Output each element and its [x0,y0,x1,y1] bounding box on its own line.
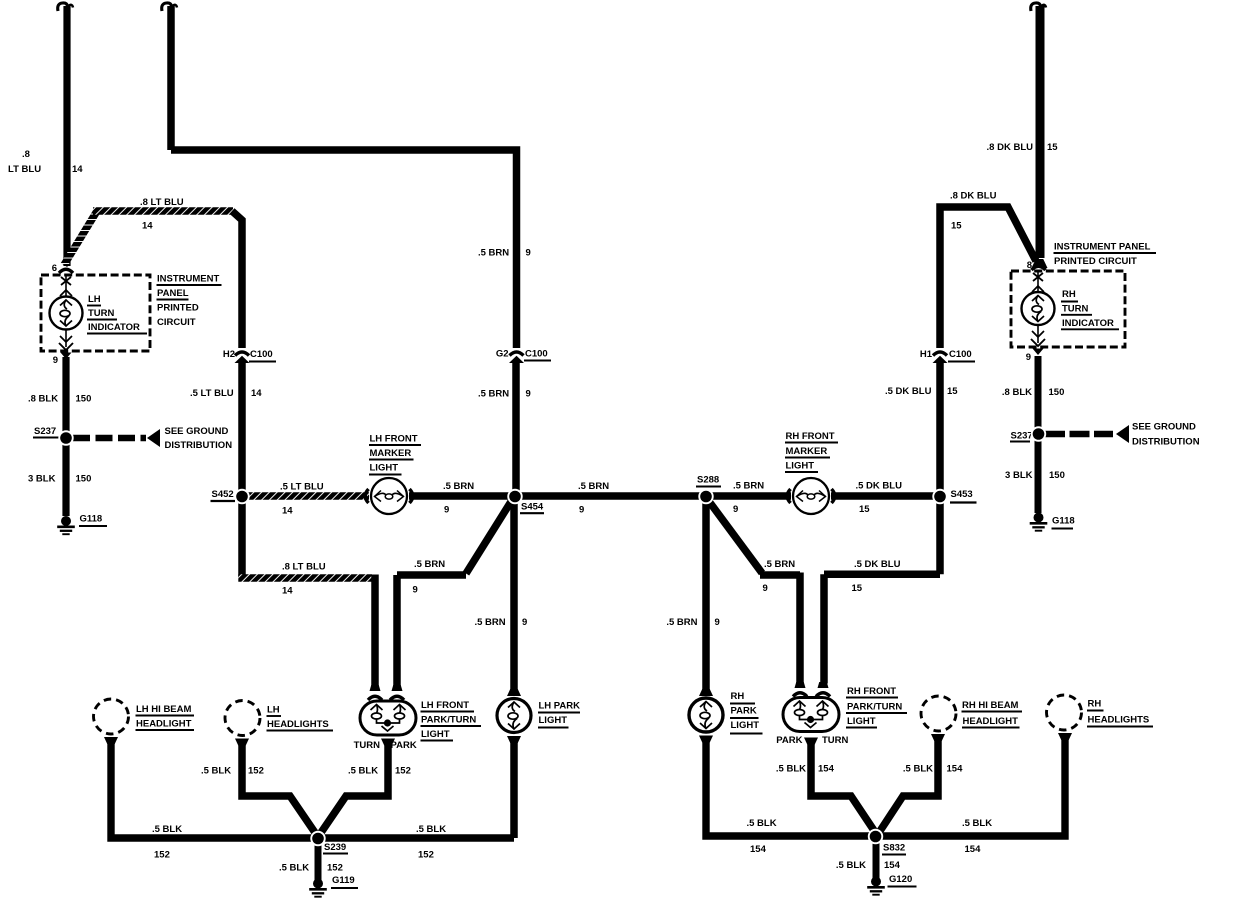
svg-text:150: 150 [76,394,92,405]
svg-text:15: 15 [951,221,962,232]
svg-text:S239: S239 [324,842,346,853]
svg-text:INSTRUMENT: INSTRUMENT [157,274,219,285]
svg-text:PARK/TURN: PARK/TURN [421,715,476,726]
svg-text:15: 15 [947,386,958,397]
svg-text:RH: RH [1088,699,1102,710]
svg-text:.5 BLK: .5 BLK [836,860,866,871]
svg-text:.8 BLK: .8 BLK [28,394,58,405]
svg-text:RH: RH [1062,289,1076,300]
svg-text:SEE GROUND: SEE GROUND [1132,422,1196,433]
svg-text:LT BLU: LT BLU [8,164,41,175]
svg-text:LH HI BEAM: LH HI BEAM [136,704,192,715]
svg-text:LIGHT: LIGHT [847,716,876,727]
svg-text:TURN: TURN [88,308,115,319]
svg-text:INSTRUMENT PANEL: INSTRUMENT PANEL [1054,242,1151,253]
svg-text:HEADLIGHTS: HEADLIGHTS [267,719,329,730]
svg-text:152: 152 [154,850,170,861]
svg-text:.8 DK BLU: .8 DK BLU [987,142,1034,153]
svg-text:S288: S288 [697,475,719,486]
svg-text:.5 BLK: .5 BLK [747,818,777,829]
svg-text:.5 BLK: .5 BLK [903,764,933,775]
svg-text:G118: G118 [1052,516,1075,527]
svg-text:CIRCUIT: CIRCUIT [157,317,196,328]
svg-text:.5 BLK: .5 BLK [279,863,309,874]
svg-text:C100: C100 [525,349,548,360]
svg-text:LH FRONT: LH FRONT [370,434,418,445]
svg-text:INDICATOR: INDICATOR [88,322,140,333]
svg-text:6: 6 [52,263,57,274]
svg-text:LIGHT: LIGHT [370,463,399,474]
svg-text:G120: G120 [889,874,912,885]
svg-text:.5 DK BLU: .5 DK BLU [885,386,932,397]
svg-text:15: 15 [1047,142,1058,153]
svg-text:S832: S832 [883,843,905,854]
svg-text:SEE GROUND: SEE GROUND [165,426,229,437]
svg-text:.8: .8 [22,149,30,160]
svg-text:9: 9 [526,389,531,400]
svg-text:.8 LT BLU: .8 LT BLU [140,197,184,208]
svg-text:.5 BRN: .5 BRN [733,481,764,492]
svg-text:LH: LH [88,294,101,305]
svg-text:RH HI BEAM: RH HI BEAM [962,700,1019,711]
svg-text:150: 150 [1049,387,1065,398]
svg-text:.5 BRN: .5 BRN [443,481,474,492]
svg-text:RH FRONT: RH FRONT [847,686,896,697]
svg-text:.5 DK BLU: .5 DK BLU [854,559,901,570]
svg-text:9: 9 [715,617,720,628]
svg-text:.5 BLK: .5 BLK [348,766,378,777]
svg-text:MARKER: MARKER [370,448,412,459]
svg-text:S452: S452 [212,489,234,500]
svg-text:S454: S454 [521,502,544,513]
svg-text:C100: C100 [949,349,972,360]
svg-text:.5 LT BLU: .5 LT BLU [190,388,234,399]
svg-text:9: 9 [733,504,738,515]
svg-text:.5 BLK: .5 BLK [776,764,806,775]
svg-text:.5 BRN: .5 BRN [578,481,609,492]
svg-text:DISTRIBUTION: DISTRIBUTION [1132,437,1200,448]
svg-text:.5 BRN: .5 BRN [478,389,509,400]
svg-text:PARK/TURN: PARK/TURN [847,702,902,713]
svg-text:.5 LT BLU: .5 LT BLU [280,482,324,493]
svg-text:152: 152 [395,766,411,777]
svg-text:3 BLK: 3 BLK [28,474,56,485]
svg-text:.5 BLK: .5 BLK [201,766,231,777]
svg-text:9: 9 [53,355,58,366]
svg-text:154: 154 [947,764,964,775]
svg-text:G118: G118 [80,514,103,525]
svg-text:.5 BRN: .5 BRN [666,617,697,628]
svg-text:9: 9 [413,585,418,596]
svg-text:14: 14 [282,506,293,517]
svg-text:.5 BLK: .5 BLK [962,818,992,829]
svg-text:150: 150 [76,474,92,485]
svg-text:TURN: TURN [1062,304,1089,315]
svg-text:.8 BLK: .8 BLK [1002,387,1032,398]
svg-text:152: 152 [327,863,343,874]
svg-text:3 BLK: 3 BLK [1005,470,1033,481]
svg-text:C100: C100 [250,349,273,360]
svg-text:9: 9 [579,505,584,516]
svg-text:LH: LH [267,705,280,716]
svg-text:PRINTED: PRINTED [157,303,199,314]
svg-text:154: 154 [965,844,982,855]
svg-text:152: 152 [418,850,434,861]
svg-text:TURN: TURN [822,735,849,746]
svg-text:.5 BRN: .5 BRN [764,559,795,570]
svg-text:LH PARK: LH PARK [539,701,581,712]
svg-text:154: 154 [818,764,835,775]
svg-text:.5 BLK: .5 BLK [416,824,446,835]
svg-text:S237: S237 [34,426,56,437]
svg-text:9: 9 [526,248,531,259]
svg-text:9: 9 [444,505,449,516]
svg-text:.5 BLK: .5 BLK [152,824,182,835]
svg-text:H2: H2 [223,349,235,360]
svg-text:LIGHT: LIGHT [786,461,815,472]
svg-text:.5 DK BLU: .5 DK BLU [856,481,903,492]
svg-text:LIGHT: LIGHT [539,715,568,726]
svg-text:TURN: TURN [354,740,381,751]
svg-text:S453: S453 [951,489,973,500]
svg-text:DISTRIBUTION: DISTRIBUTION [165,440,233,451]
svg-text:.8 DK BLU: .8 DK BLU [950,191,997,202]
svg-text:.8 LT BLU: .8 LT BLU [282,562,326,573]
svg-text:152: 152 [248,766,264,777]
svg-text:PRINTED CIRCUIT: PRINTED CIRCUIT [1054,256,1137,267]
svg-text:G2: G2 [496,349,509,360]
svg-text:14: 14 [251,388,262,399]
svg-text:.5 BRN: .5 BRN [414,559,445,570]
svg-text:15: 15 [852,583,863,594]
svg-text:RH: RH [731,691,745,702]
svg-text:PARK: PARK [391,740,417,751]
svg-text:LIGHT: LIGHT [421,729,450,740]
svg-text:MARKER: MARKER [786,446,828,457]
svg-text:14: 14 [142,221,153,232]
svg-text:150: 150 [1049,470,1065,481]
svg-text:INDICATOR: INDICATOR [1062,318,1114,329]
svg-text:9: 9 [1026,352,1031,363]
svg-text:PANEL: PANEL [157,288,189,299]
svg-text:H1: H1 [920,349,933,360]
svg-text:15: 15 [859,504,870,515]
svg-text:.5 BRN: .5 BRN [478,248,509,259]
svg-text:HEADLIGHT: HEADLIGHT [136,719,192,730]
svg-text:PARK: PARK [731,706,757,717]
svg-text:HEADLIGHT: HEADLIGHT [963,716,1019,727]
svg-text:RH FRONT: RH FRONT [786,431,835,442]
svg-text:9: 9 [763,583,768,594]
svg-text:HEADLIGHTS: HEADLIGHTS [1088,715,1150,726]
svg-text:PARK: PARK [776,735,802,746]
svg-text:G119: G119 [332,875,355,886]
svg-text:154: 154 [884,860,901,871]
svg-text:9: 9 [522,617,527,628]
svg-text:14: 14 [282,586,293,597]
svg-text:S237: S237 [1011,431,1033,442]
svg-text:LH FRONT: LH FRONT [421,700,469,711]
svg-text:154: 154 [750,844,767,855]
svg-text:14: 14 [72,164,83,175]
svg-text:.5 BRN: .5 BRN [475,617,506,628]
svg-text:LIGHT: LIGHT [731,720,760,731]
